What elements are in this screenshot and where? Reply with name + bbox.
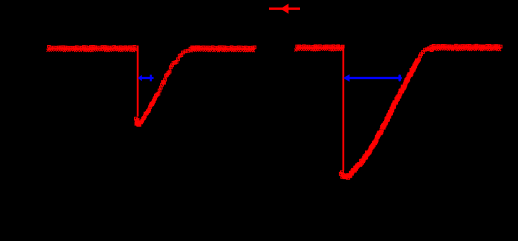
right trace: dip bottom cluster xyxy=(339,171,348,179)
right blue double-headed arrow xyxy=(343,74,402,81)
right trace: baseline after recovery (noisy data band) xyxy=(429,44,502,51)
left trace: dip bottom cluster xyxy=(135,117,140,126)
top red arrow head xyxy=(281,4,289,14)
right trace: recovery main part (open-square data points) xyxy=(346,60,418,180)
left trace: baseline after recovery (noisy data band) xyxy=(190,46,256,53)
top red left-pointing arrow shaft xyxy=(269,7,300,9)
left trace: recovery lower part (open-square data points) xyxy=(137,94,157,126)
right trace: recovery shoulder (open-square data points) xyxy=(416,46,436,62)
left trace: baseline before dip (noisy data band) xyxy=(47,46,138,53)
left trace: vertical drop line xyxy=(137,46,139,117)
right trace: vertical drop line xyxy=(342,46,344,171)
left blue double-headed arrow xyxy=(138,75,154,82)
right trace: baseline before dip (noisy data band) xyxy=(294,45,344,52)
left trace: recovery upper part (open-square data points) xyxy=(155,47,195,97)
